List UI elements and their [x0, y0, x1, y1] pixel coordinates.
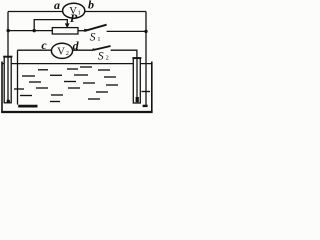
svg-text:P: P [70, 11, 78, 25]
voltmeter V2 [51, 43, 72, 58]
label S1 [90, 32, 101, 44]
wire: S1 to right vertical [107, 30, 146, 32]
liquid dashes row6 [50, 99, 100, 102]
right electrode wire (from node b) [143, 12, 148, 106]
node junction wiper tap [33, 29, 36, 32]
left tube [3, 57, 12, 103]
wire: S2 to right tube [111, 50, 137, 58]
tank right wall [151, 62, 153, 113]
svg-text:1: 1 [97, 36, 100, 43]
svg-text:2: 2 [66, 51, 69, 57]
svg-text:S: S [98, 50, 104, 62]
tank bottom [1, 111, 152, 113]
switch S1 [84, 25, 107, 32]
rheostat P [52, 28, 78, 34]
liquid dashes row1 [38, 67, 110, 70]
svg-text:b: b [88, 0, 94, 12]
svg-text:2: 2 [106, 55, 109, 62]
water surface [2, 63, 152, 65]
wire: left vertical to left tube [7, 12, 9, 58]
wire: rheostat to switch S1 [78, 30, 85, 32]
svg-text:a: a [54, 0, 60, 12]
tank left wall [1, 62, 3, 113]
wire: top conductor a-b [8, 11, 146, 13]
node junction on left vertical [7, 29, 10, 32]
wiper wire of rheostat [34, 20, 69, 31]
liquid dashes row2 [22, 75, 116, 77]
liquid dashes row4 [14, 88, 150, 92]
electrode inside left tube [7, 57, 9, 104]
switch S2 [92, 46, 110, 51]
wire: V2 to switch S2 [72, 49, 94, 51]
svg-text:c: c [41, 38, 47, 52]
left electrode wire (node c branch) [18, 50, 38, 106]
label S2 [98, 50, 109, 62]
liquid dashes row3 [29, 82, 118, 86]
electrode inside right tube [136, 58, 138, 102]
wire: middle conductor to rheostat [8, 30, 52, 32]
svg-text:S: S [90, 32, 96, 44]
svg-text:V: V [57, 45, 65, 57]
node junction at b vertical [144, 30, 147, 33]
svg-text:1: 1 [78, 11, 81, 17]
svg-text:d: d [73, 39, 80, 53]
wire: node c horizontal [18, 49, 53, 51]
voltmeter V1 [63, 3, 85, 18]
right tube [132, 58, 141, 103]
liquid dashes row5 [20, 94, 63, 97]
